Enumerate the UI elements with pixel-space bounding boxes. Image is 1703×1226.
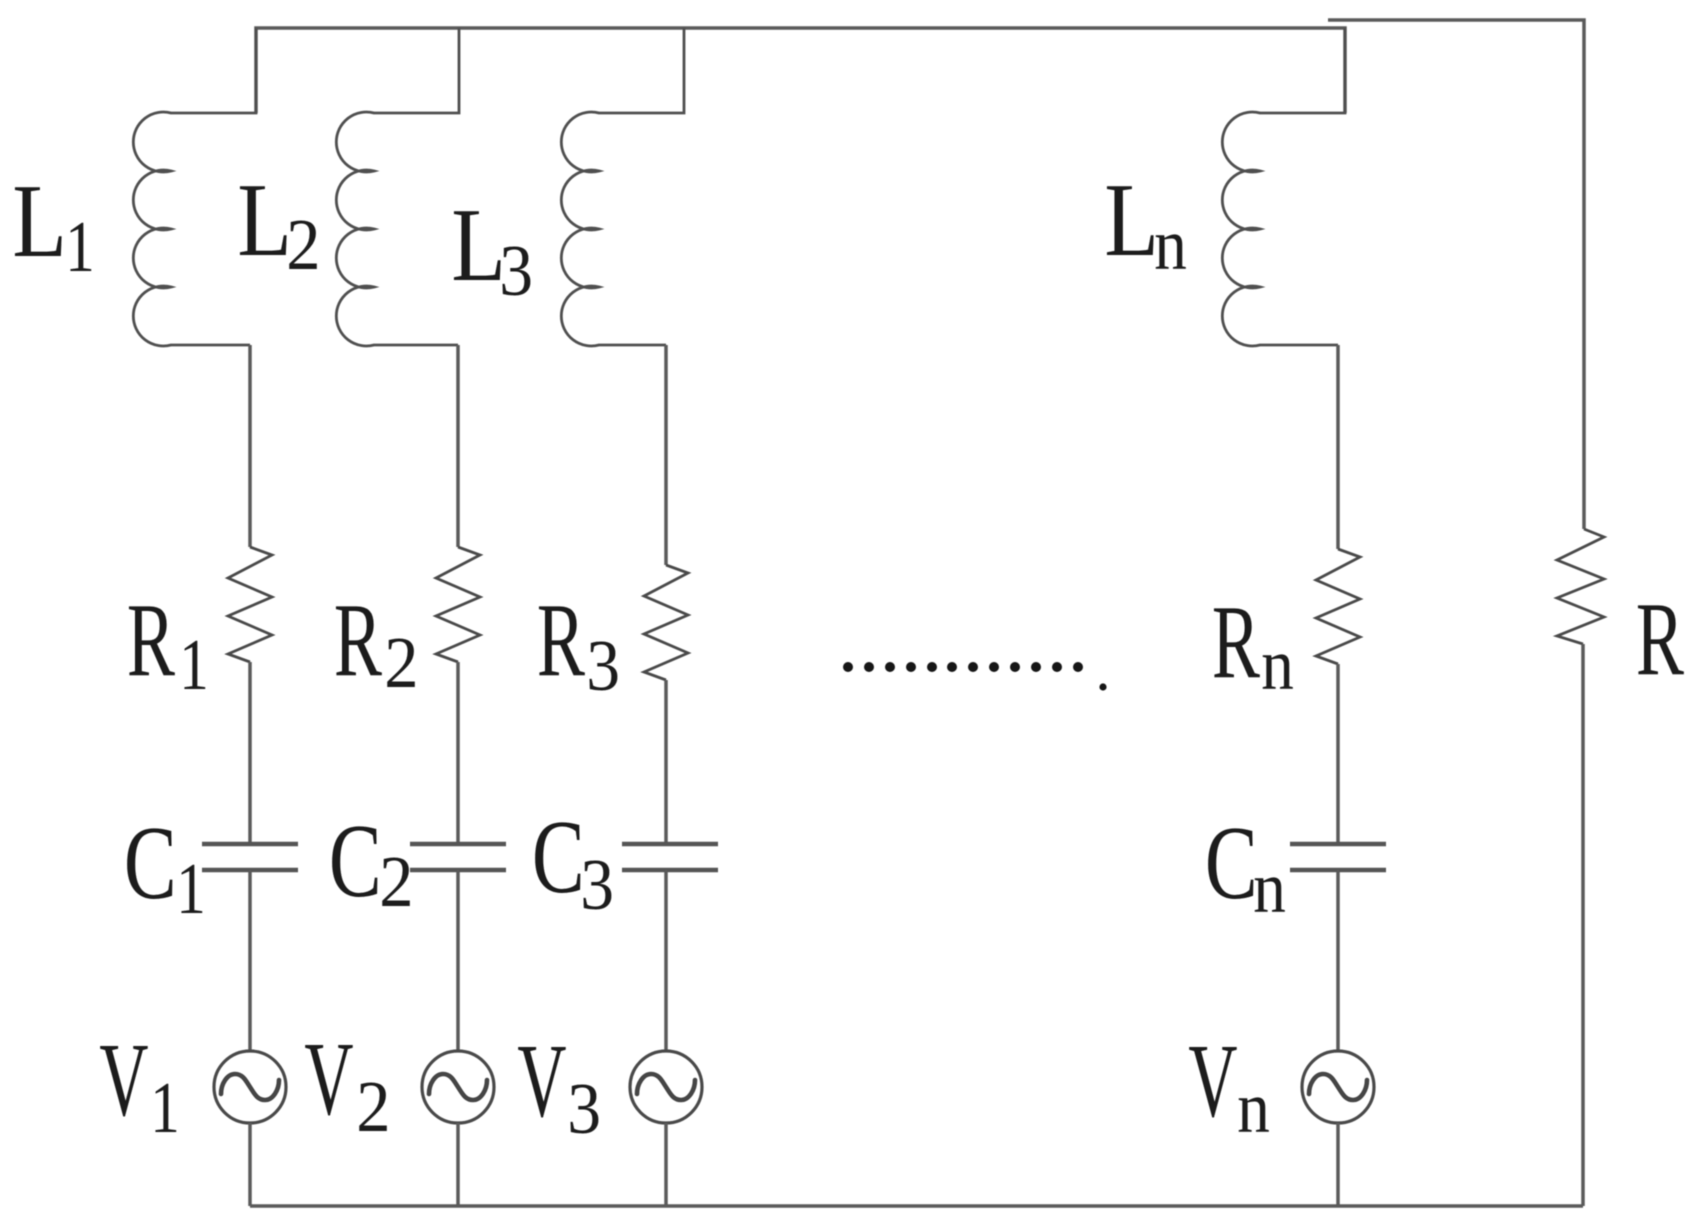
svg-text:C: C: [124, 804, 177, 921]
wire: [1581, 644, 1585, 1206]
wire: [248, 870, 252, 1051]
wire: [664, 870, 668, 1051]
svg-text:3: 3: [499, 230, 533, 311]
wire: [456, 345, 460, 547]
source Vn: [1302, 1051, 1374, 1123]
svg-text:C: C: [329, 802, 382, 919]
svg-text:R: R: [1212, 583, 1260, 700]
capacitor C1: [202, 842, 298, 846]
svg-text:L: L: [12, 162, 67, 279]
svg-text:V: V: [99, 1021, 148, 1138]
svg-text:L: L: [451, 186, 506, 303]
wire: [664, 345, 668, 565]
svg-text:3: 3: [586, 625, 620, 706]
svg-text:V: V: [517, 1022, 566, 1139]
wire bottom bus: [250, 1204, 1583, 1208]
wire R branch top: [1328, 20, 1584, 529]
svg-text:1: 1: [150, 1067, 180, 1148]
svg-text:2: 2: [379, 841, 413, 922]
svg-text:L: L: [1104, 161, 1159, 278]
resistor R3: [644, 565, 688, 680]
wire: [248, 345, 252, 547]
svg-text:V: V: [1188, 1022, 1237, 1139]
svg-text:n: n: [1261, 624, 1294, 705]
source V1: [214, 1051, 286, 1123]
svg-text:R: R: [1636, 580, 1684, 697]
wire: [1336, 1123, 1340, 1206]
resistor Rn: [1316, 549, 1360, 664]
svg-text:3: 3: [580, 844, 614, 925]
inductor L2: [336, 28, 459, 346]
wire: [456, 870, 460, 1051]
svg-text:R: R: [537, 581, 585, 698]
svg-text:R: R: [334, 581, 382, 698]
svg-text:1: 1: [176, 848, 206, 929]
source V2: [422, 1051, 494, 1123]
svg-text:1: 1: [179, 624, 209, 705]
capacitor C2: [410, 842, 506, 846]
svg-text:V: V: [304, 1020, 353, 1137]
wire: [1336, 664, 1340, 844]
inductor Ln: [1222, 28, 1345, 346]
svg-text:2: 2: [384, 622, 418, 703]
wire: [1336, 870, 1340, 1051]
resistor R2: [436, 547, 480, 662]
svg-text:n: n: [1154, 204, 1187, 285]
svg-text:1: 1: [65, 206, 95, 287]
svg-text:R: R: [127, 581, 175, 698]
capacitor C3: [622, 842, 718, 846]
wire: [664, 1123, 668, 1206]
svg-text:C: C: [1205, 804, 1258, 921]
svg-text:n: n: [1253, 847, 1286, 928]
inductor L1: [133, 28, 256, 346]
wire: [248, 1123, 252, 1206]
resistor R1: [228, 547, 272, 662]
svg-text:3: 3: [567, 1068, 601, 1149]
inductor L3: [561, 28, 684, 346]
node dots (continuation): [843, 662, 1107, 691]
svg-text:L: L: [237, 161, 292, 278]
wire: [248, 662, 252, 844]
capacitor Cn: [1290, 842, 1386, 846]
svg-text:n: n: [1237, 1067, 1270, 1148]
wire top bus: [256, 28, 1345, 113]
resistor R: [1557, 529, 1604, 644]
source V3: [630, 1051, 702, 1123]
svg-text:2: 2: [356, 1066, 390, 1147]
wire: [664, 680, 668, 844]
svg-text:2: 2: [286, 204, 320, 285]
wire: [456, 1123, 460, 1206]
wire: [456, 662, 460, 844]
wire: [1336, 345, 1340, 549]
svg-text:C: C: [532, 798, 585, 915]
